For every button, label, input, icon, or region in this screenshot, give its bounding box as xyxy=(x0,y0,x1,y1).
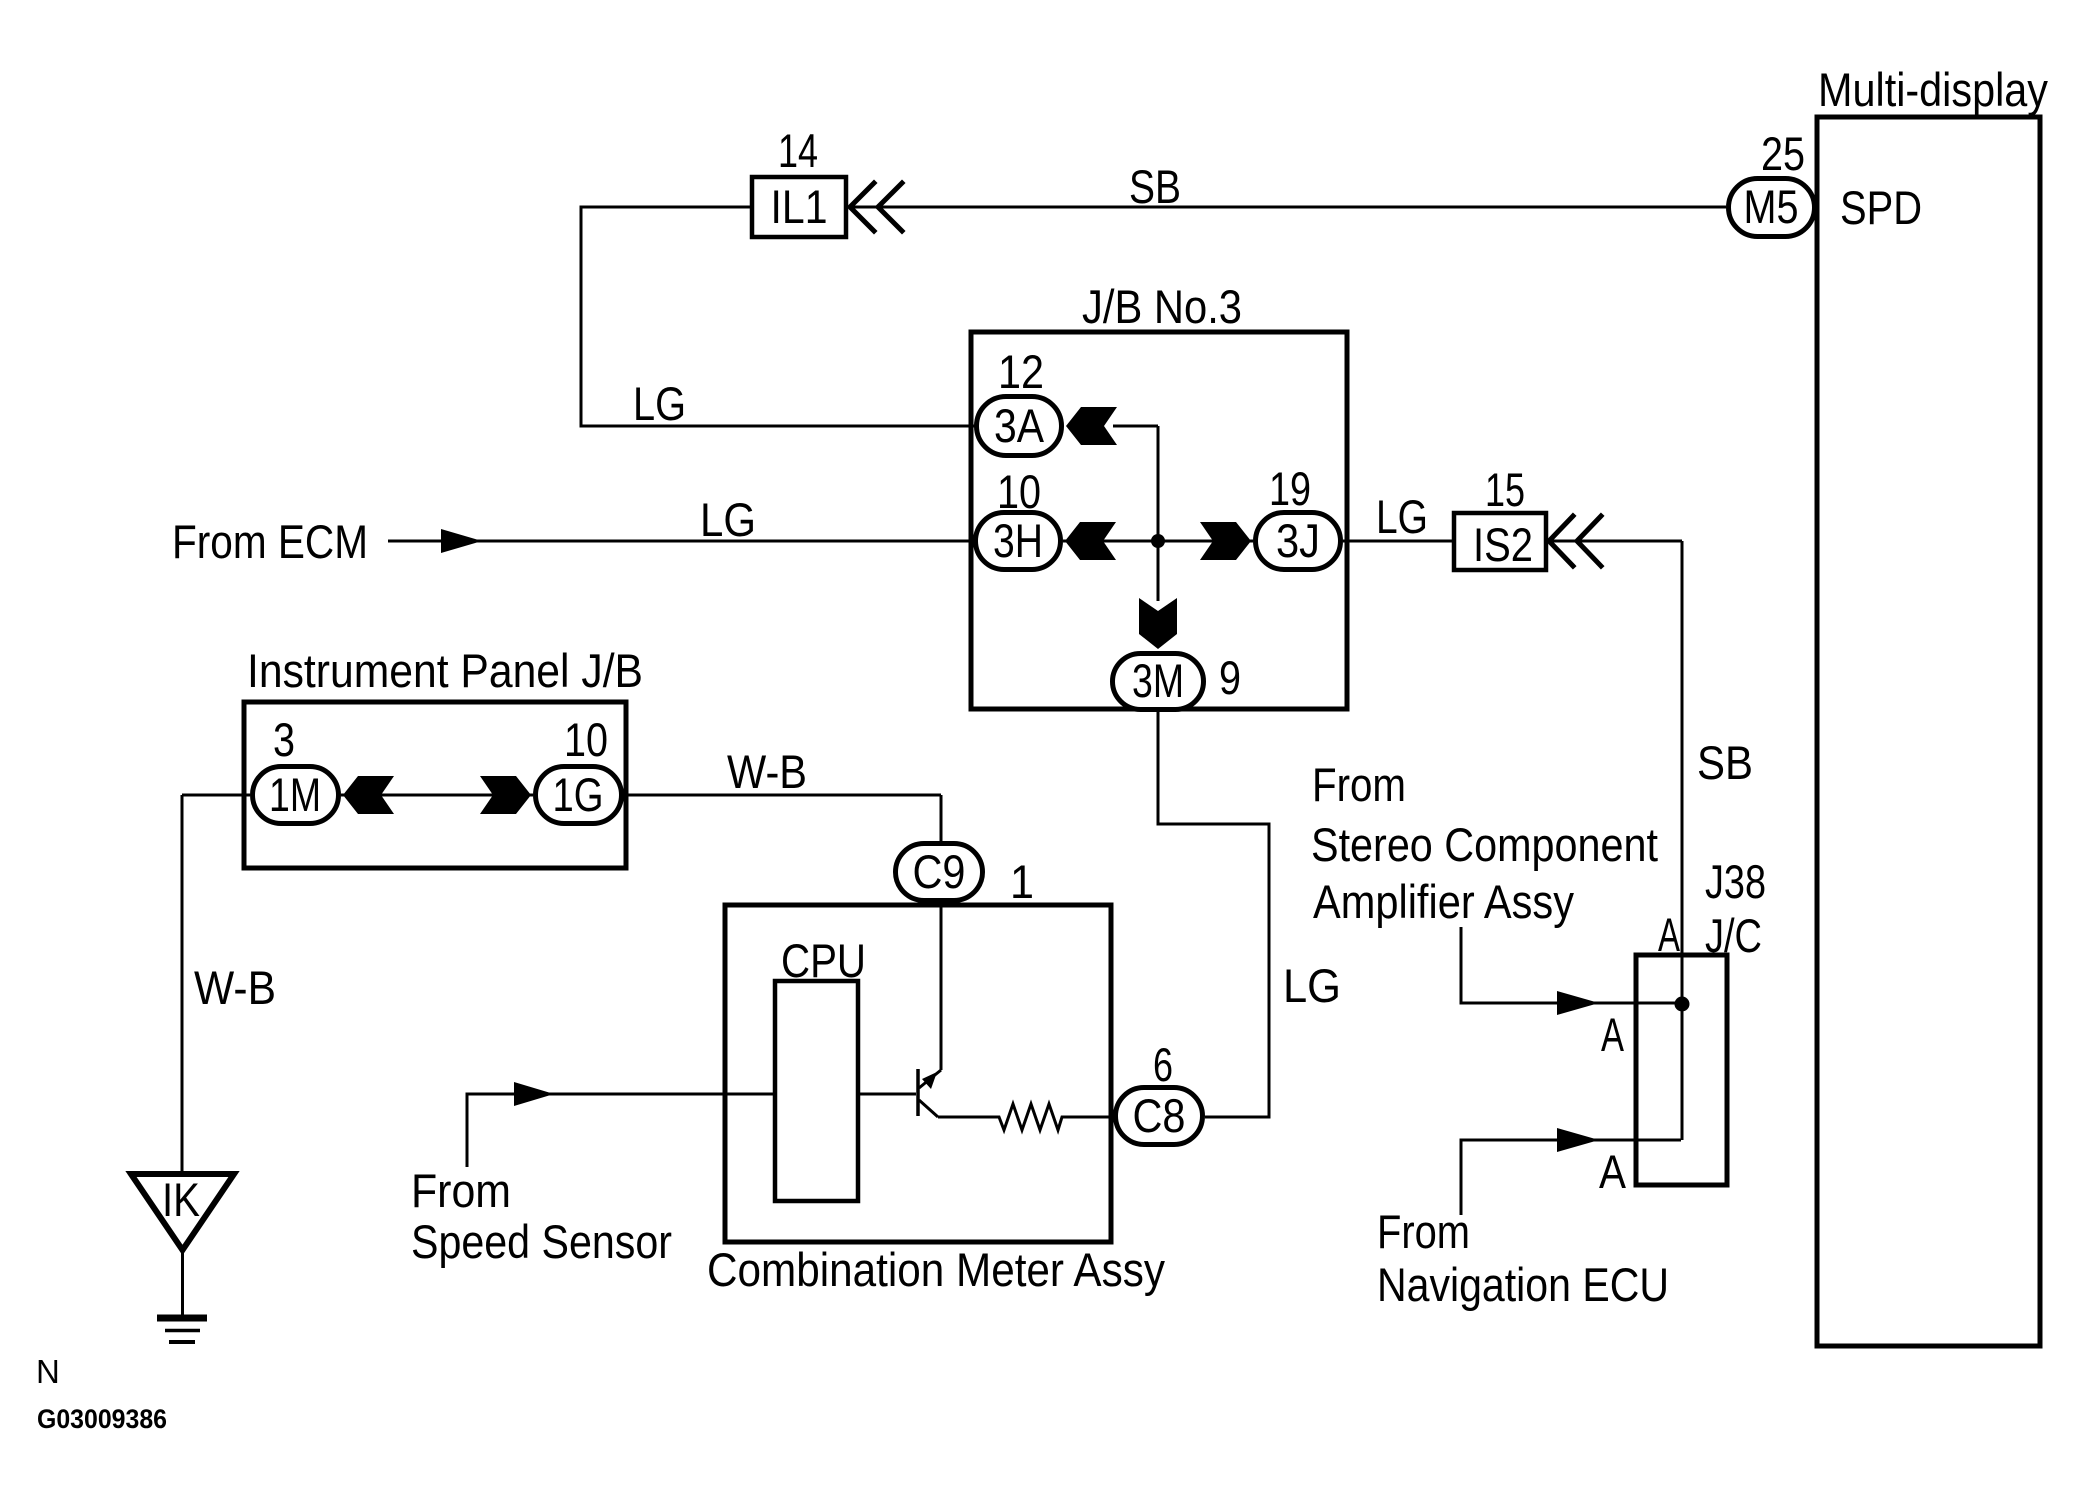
svg-text:3: 3 xyxy=(273,713,295,766)
connector 3H xyxy=(976,513,1061,570)
wire IL1 left down to LG xyxy=(581,207,976,426)
svg-text:Stereo Component: Stereo Component xyxy=(1311,818,1658,871)
multi-display box xyxy=(1817,117,2040,1346)
wire SB from M5 to IL1 xyxy=(846,206,1726,209)
wire 3H to 3J xyxy=(1063,540,1253,543)
wire C9 down to transistor collector xyxy=(940,903,943,1070)
svg-text:SB: SB xyxy=(1697,736,1753,789)
svg-text:25: 25 xyxy=(1761,127,1805,180)
svg-text:10: 10 xyxy=(997,465,1041,518)
svg-text:J38: J38 xyxy=(1705,855,1766,908)
ground connector IK xyxy=(131,1173,234,1250)
transistor Q1 xyxy=(918,1069,941,1117)
junction dot in J/C xyxy=(1675,997,1690,1012)
junction block IS2 xyxy=(1454,513,1546,571)
label From Navigation ECU xyxy=(1377,1205,1669,1311)
svg-text:9: 9 xyxy=(1219,651,1241,704)
wire 3M down to C8 xyxy=(1158,712,1269,1117)
svg-text:LG: LG xyxy=(633,377,686,430)
wire From ECM to 3H xyxy=(388,540,973,543)
arrow into 1G xyxy=(480,776,531,814)
arrow into 3H xyxy=(1065,522,1116,560)
svg-text:Instrument Panel J/B: Instrument Panel J/B xyxy=(247,644,643,697)
connector 3M xyxy=(1113,654,1204,710)
svg-text:LG: LG xyxy=(1376,490,1428,543)
svg-text:W-B: W-B xyxy=(727,745,807,798)
wire 1G to C9 xyxy=(624,795,941,849)
wire from navigation ECU xyxy=(1461,1004,1682,1215)
svg-text:LG: LG xyxy=(700,493,756,546)
wire CPU to transistor xyxy=(858,1093,916,1096)
chevrons at IL1 xyxy=(850,183,902,231)
label From Speed Sensor xyxy=(411,1164,672,1268)
connector C8 xyxy=(1116,1088,1203,1145)
svg-text:N: N xyxy=(36,1353,60,1390)
arrow into 3A xyxy=(1066,407,1117,445)
resistor xyxy=(938,1104,1113,1130)
J/B No.3 box xyxy=(971,332,1347,709)
svg-text:Multi-display: Multi-display xyxy=(1818,63,2048,116)
svg-text:10: 10 xyxy=(564,713,608,766)
svg-text:SB: SB xyxy=(1129,160,1181,213)
svg-text:SPD: SPD xyxy=(1840,181,1922,234)
junction connector J38 box xyxy=(1636,955,1727,1185)
svg-text:C9: C9 xyxy=(913,845,966,898)
svg-text:3A: 3A xyxy=(994,399,1045,452)
svg-text:3M: 3M xyxy=(1132,654,1184,707)
chevrons at IS2 xyxy=(1549,516,1601,566)
svg-text:Speed Sensor: Speed Sensor xyxy=(411,1215,672,1268)
CPU box xyxy=(775,981,858,1201)
svg-text:IL1: IL1 xyxy=(771,180,828,233)
svg-text:Amplifier Assy: Amplifier Assy xyxy=(1313,875,1574,928)
svg-text:From: From xyxy=(1312,758,1406,811)
wire 1M to IK xyxy=(182,795,250,1174)
svg-text:A: A xyxy=(1601,1008,1624,1061)
connector 3J xyxy=(1256,513,1341,570)
wire from stereo amp xyxy=(1461,927,1681,1003)
label From Stereo Component Amplifier Assy xyxy=(1311,758,1658,928)
wire 3J to IS2 xyxy=(1343,540,1454,543)
wire 3A arrow to junction xyxy=(1113,426,1158,601)
svg-text:W-B: W-B xyxy=(194,961,276,1014)
svg-text:J/B No.3: J/B No.3 xyxy=(1082,280,1242,333)
svg-text:6: 6 xyxy=(1153,1038,1173,1091)
arrow on stereo wire xyxy=(1557,991,1599,1015)
arrow down into 3M xyxy=(1139,598,1177,649)
svg-text:1M: 1M xyxy=(269,768,321,821)
arrow on navigation wire xyxy=(1557,1128,1599,1152)
connector C9 xyxy=(896,844,983,901)
svg-text:LG: LG xyxy=(1283,959,1341,1012)
svg-text:19: 19 xyxy=(1269,462,1311,515)
svg-text:From: From xyxy=(1377,1205,1470,1258)
svg-text:1: 1 xyxy=(1010,855,1034,908)
svg-text:12: 12 xyxy=(998,345,1044,398)
svg-text:From: From xyxy=(411,1164,511,1217)
connector M5 xyxy=(1729,179,1815,237)
connector 1G xyxy=(536,767,622,824)
wire 1M to 1G xyxy=(341,794,533,797)
svg-text:3H: 3H xyxy=(993,514,1043,567)
svg-text:15: 15 xyxy=(1485,463,1525,516)
arrow into 3J xyxy=(1200,522,1251,560)
junction dot xyxy=(1151,534,1165,548)
svg-text:1G: 1G xyxy=(553,768,604,821)
svg-text:C8: C8 xyxy=(1133,1089,1186,1142)
svg-text:M5: M5 xyxy=(1744,180,1799,233)
wire IS2 to J/C junction xyxy=(1546,541,1682,1004)
svg-text:3J: 3J xyxy=(1276,514,1320,567)
svg-text:IK: IK xyxy=(162,1173,200,1226)
Instrument Panel J/B box xyxy=(244,702,626,868)
svg-text:G03009386: G03009386 xyxy=(37,1404,167,1434)
connector 3A xyxy=(977,397,1062,456)
svg-text:A: A xyxy=(1599,1145,1627,1198)
svg-text:14: 14 xyxy=(778,124,818,177)
svg-text:Combination Meter Assy: Combination Meter Assy xyxy=(707,1243,1165,1296)
svg-text:CPU: CPU xyxy=(781,934,866,987)
arrow into 1M xyxy=(343,776,394,814)
svg-text:From ECM: From ECM xyxy=(172,515,368,568)
wire from speed sensor xyxy=(467,1094,775,1167)
svg-text:Navigation ECU: Navigation ECU xyxy=(1377,1258,1669,1311)
arrow on speed sensor wire xyxy=(514,1082,554,1106)
junction block IL1 xyxy=(752,177,846,237)
connector 1M xyxy=(253,767,339,824)
arrow on ECM wire xyxy=(441,529,482,553)
wire IK to ground xyxy=(181,1250,184,1318)
Combination Meter Assy box xyxy=(725,905,1111,1242)
svg-text:IS2: IS2 xyxy=(1473,518,1533,571)
ground xyxy=(157,1318,207,1342)
